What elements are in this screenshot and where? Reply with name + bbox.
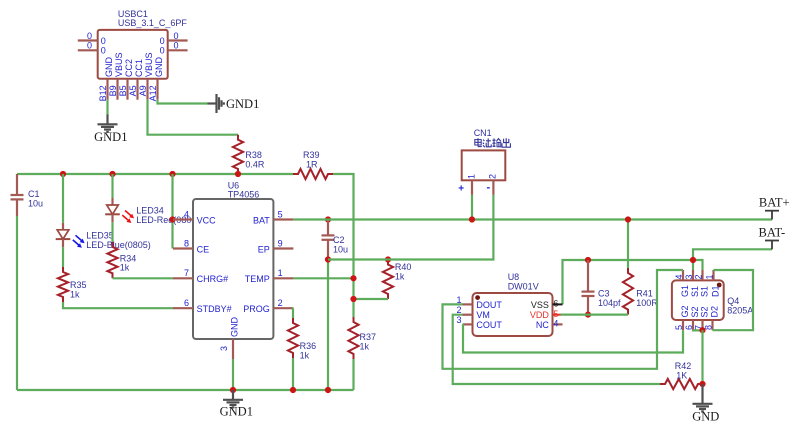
pin 4 VCC of U6	[173, 209, 216, 225]
wire Q4 pin3 drop	[692, 260, 694, 270]
transistor Q4 8205A dual MOSFET	[672, 280, 753, 320]
pin 1 TEMP of U6	[245, 268, 294, 284]
svg-text:1k: 1k	[120, 263, 130, 273]
wire R37 to bottom rail	[352, 359, 354, 390]
svg-text:GND1: GND1	[94, 130, 127, 144]
node rail-LED35	[60, 171, 66, 177]
svg-text:1R: 1R	[306, 159, 318, 169]
pin 6 STDBY# of U6	[173, 298, 232, 314]
svg-text:1k: 1k	[300, 350, 310, 360]
svg-text:2: 2	[278, 298, 283, 308]
svg-text:B9: B9	[108, 85, 118, 96]
resistor R41 100R	[623, 268, 658, 315]
node C3 bottom - VDD line	[585, 312, 591, 318]
resistor R40 1k	[383, 260, 412, 300]
pin 0 bottom-left of USBC1	[78, 41, 106, 56]
svg-text:TEMP: TEMP	[245, 274, 270, 284]
pin 0 bottom-right of USBC1	[160, 41, 188, 56]
wire BAT+ to R41	[627, 220, 629, 269]
svg-text:0: 0	[87, 31, 92, 41]
svg-text:1k: 1k	[360, 341, 370, 351]
wire CN1 pin1 to BAT+	[471, 195, 473, 220]
svg-text:104pf: 104pf	[598, 298, 621, 308]
pin 8 CE of U6	[173, 238, 209, 254]
wire VSS rail right	[563, 260, 703, 304]
node R40 bottom junction	[350, 296, 356, 302]
pin 6 S2 of Q4	[684, 306, 700, 330]
svg-text:S1: S1	[690, 286, 700, 297]
capacitor C1 10u	[11, 174, 44, 216]
svg-text:STDBY#: STDBY#	[197, 304, 232, 314]
svg-text:-: -	[487, 182, 491, 194]
svg-text:EP: EP	[258, 244, 270, 254]
svg-text:B12: B12	[98, 85, 108, 101]
wire C2 to bottom rail	[327, 260, 329, 391]
capacitor C2 10u	[322, 220, 349, 260]
pin 5 BAT of U6	[253, 209, 293, 225]
pin 3 S1 of Q4	[684, 270, 700, 297]
pin 3 GND of U6	[219, 317, 240, 360]
svg-text:5: 5	[553, 309, 558, 319]
svg-text:10u: 10u	[28, 198, 43, 208]
svg-text:S2: S2	[700, 306, 710, 317]
pin 2 S1 of Q4	[693, 270, 709, 297]
pin 1 of CN1	[458, 174, 476, 195]
resistor R34 1k	[107, 242, 136, 278]
svg-text:A12: A12	[148, 85, 158, 101]
wire BAT- net	[693, 249, 772, 260]
LED LED34 LED-Red(0805)	[105, 198, 199, 242]
svg-text:VCC: VCC	[197, 215, 217, 225]
wire C1 to bottom rail	[16, 216, 18, 390]
ground GND at Q4	[692, 384, 719, 424]
node R40 top junction	[385, 256, 391, 262]
svg-text:TP4056: TP4056	[228, 190, 260, 200]
node VSS rail - C3	[585, 257, 591, 263]
op-amp U8 DW01V protection IC	[473, 272, 553, 336]
wire BAT+ net	[293, 218, 772, 220]
svg-text:5: 5	[674, 325, 684, 330]
svg-text:BAT: BAT	[253, 215, 270, 225]
node GND rail - C2	[325, 387, 331, 393]
svg-text:GND: GND	[230, 317, 240, 338]
svg-text:0: 0	[101, 46, 106, 56]
node CN1 pin1 junction	[469, 216, 475, 222]
wire rail to LED34	[111, 174, 113, 198]
svg-text:8: 8	[184, 238, 189, 248]
wire R36 to bottom rail	[292, 358, 294, 390]
svg-text:0.4R: 0.4R	[245, 159, 265, 169]
svg-text:0: 0	[160, 36, 165, 46]
node VCC pin junction	[169, 216, 175, 222]
pin 8 D2 of Q4	[703, 306, 719, 330]
svg-text:NC: NC	[536, 320, 549, 330]
svg-text:CC1: CC1	[134, 59, 144, 77]
wire rail to VCC and CE	[171, 174, 173, 249]
pin 5 G2 of Q4	[674, 305, 690, 330]
pin 2 of CN1	[487, 174, 498, 195]
pin A9 VBUS of USBC1	[138, 52, 154, 99]
wire rail to LED35	[62, 174, 64, 223]
svg-text:6: 6	[184, 298, 189, 308]
svg-text:S2: S2	[690, 306, 700, 317]
svg-text:BAT+: BAT+	[759, 196, 790, 210]
pin 2 VM of U8	[456, 305, 489, 320]
svg-text:U8: U8	[508, 272, 520, 282]
svg-text:CC2: CC2	[124, 59, 134, 77]
svg-text:3: 3	[456, 315, 461, 325]
pin 3 COUT of U8	[456, 315, 502, 330]
resistor R36 1k	[288, 318, 316, 360]
pin 0 top-left of USBC1	[78, 31, 106, 46]
svg-text:1: 1	[704, 274, 714, 279]
LED LED35 LED-Blue(0805)	[56, 223, 151, 267]
svg-text:3: 3	[219, 346, 229, 351]
connector CN1 battery output	[462, 128, 506, 180]
node R42 - S2 junction	[699, 381, 705, 387]
svg-text:1: 1	[466, 174, 476, 179]
svg-text:2: 2	[488, 174, 498, 179]
wire R34 to CHRG#	[113, 277, 174, 279]
wire BAT to C2	[325, 216, 331, 222]
wire TEMP to column	[293, 277, 353, 279]
svg-text:BAT-: BAT-	[759, 226, 786, 240]
svg-text:5: 5	[278, 209, 283, 219]
wire S2 pins join	[693, 329, 703, 331]
wire U6 GND pin to rail	[232, 359, 234, 390]
pin 7 S2 of Q4	[693, 306, 709, 330]
svg-text:DW01V: DW01V	[508, 282, 539, 292]
svg-text:0: 0	[174, 41, 179, 51]
svg-text:VBUS: VBUS	[114, 52, 124, 77]
pin A12 GND of USBC1	[148, 57, 164, 102]
svg-text:4: 4	[553, 319, 558, 329]
svg-text:COUT: COUT	[476, 320, 502, 330]
pin B5 CC2 of USBC1	[118, 59, 134, 100]
wire DOUT to G1	[443, 270, 684, 369]
svg-text:0: 0	[101, 36, 106, 46]
svg-text:GND1: GND1	[226, 97, 259, 111]
resistor R37 1k	[348, 317, 376, 359]
node rail-R38	[235, 171, 241, 177]
pin 1 DOUT of U8	[456, 295, 502, 310]
svg-text:D2: D2	[710, 306, 720, 318]
pin 7 CHRG# of U6	[173, 268, 228, 284]
ground GND1 below USBC1	[94, 115, 127, 145]
pin 6 VSS of U8	[531, 299, 563, 310]
svg-text:4: 4	[674, 274, 684, 279]
svg-text:D1: D1	[711, 285, 721, 297]
wire R35 to STDBY#	[63, 302, 173, 308]
ground GND1 right of USBC1	[208, 94, 260, 113]
node rail-LED34	[109, 171, 115, 177]
svg-text:6: 6	[553, 299, 558, 309]
node GND rail - R36	[290, 387, 296, 393]
wire GND rail	[17, 389, 354, 391]
wire B12 to GND1	[106, 100, 108, 115]
svg-text:1K: 1K	[676, 370, 687, 380]
wire COUT to G2	[463, 324, 684, 352]
pin 9 EP of U6	[258, 238, 294, 254]
svg-text:VDD: VDD	[530, 310, 550, 320]
svg-text:1k: 1k	[395, 271, 405, 281]
wire D1 to D2 loop	[713, 270, 754, 330]
pin B9 VBUS of USBC1	[108, 52, 124, 99]
svg-text:GND: GND	[104, 56, 114, 77]
svg-text:GND1: GND1	[220, 405, 253, 419]
svg-text:A5: A5	[128, 85, 138, 96]
node BAT+ - R41	[625, 216, 631, 222]
terminal BAT-	[759, 226, 786, 250]
wire VCC rail	[17, 173, 293, 175]
pin A5 CC1 of USBC1	[128, 59, 144, 100]
svg-text:PROG: PROG	[243, 304, 270, 314]
svg-text:S1: S1	[700, 286, 710, 297]
svg-text:100R: 100R	[636, 298, 658, 308]
svg-text:VBUS: VBUS	[144, 52, 154, 77]
svg-text:CHRG#: CHRG#	[197, 274, 229, 284]
svg-text:+: +	[458, 184, 464, 195]
svg-text:1: 1	[278, 268, 283, 278]
pin 4 NC of U8	[536, 319, 563, 331]
svg-text:GND: GND	[692, 410, 719, 424]
svg-text:1k: 1k	[70, 289, 80, 299]
wire R39 to right column	[333, 174, 354, 317]
pin 0 top-right of USBC1	[160, 31, 188, 46]
ground GND1 main	[220, 390, 253, 419]
svg-text:6: 6	[684, 325, 694, 330]
svg-text:0: 0	[160, 46, 165, 56]
resistor R39 1R	[293, 150, 333, 179]
svg-text:10u: 10u	[333, 244, 348, 254]
wire A12 to GND1 flag	[158, 100, 208, 104]
node C2 bottom junction	[325, 256, 331, 262]
capacitor C3 104pf	[582, 260, 622, 315]
wire VDD line	[561, 314, 629, 316]
wire R40 bottom to column	[354, 298, 389, 300]
resistor R38 0.4R	[233, 135, 265, 174]
connector USBC1 USB_3.1_C_6PF	[98, 9, 188, 79]
pin 2 PROG of U6	[243, 298, 293, 314]
svg-text:9: 9	[278, 238, 283, 248]
svg-text:0: 0	[87, 41, 92, 51]
svg-text:7: 7	[184, 268, 189, 278]
svg-text:G1: G1	[680, 285, 690, 297]
svg-text:VSS: VSS	[531, 300, 549, 310]
svg-text:4: 4	[184, 209, 189, 219]
svg-text:A9: A9	[138, 85, 148, 96]
label CN1 Chinese value	[475, 138, 511, 147]
pin 5 VDD of U8	[530, 309, 561, 320]
node GND rail - U6	[230, 387, 236, 393]
wire C2 to CN1 pin2	[328, 195, 493, 260]
pin 4 G1 of Q4	[674, 270, 690, 297]
svg-text:0: 0	[174, 31, 179, 41]
svg-text:2: 2	[693, 274, 703, 279]
wire A9 VBUS to R38	[148, 100, 239, 135]
svg-text:CE: CE	[197, 244, 210, 254]
svg-text:CN1: CN1	[474, 128, 492, 138]
node S2 junction	[699, 327, 705, 333]
node VSS rail - Q4/BAT-	[690, 257, 696, 263]
svg-text:8205A: 8205A	[727, 305, 753, 315]
svg-text:USB_3.1_C_6PF: USB_3.1_C_6PF	[118, 18, 188, 28]
wire VM to R42	[453, 315, 660, 384]
resistor R42 1K	[660, 361, 703, 389]
node rail-VCC column	[169, 171, 175, 177]
svg-text:VM: VM	[476, 310, 490, 320]
pin 1 D1 of Q4	[704, 270, 720, 297]
pin B12 GND of USBC1	[98, 56, 114, 101]
svg-text:3: 3	[684, 274, 694, 279]
svg-text:GND: GND	[154, 57, 164, 78]
wire PROG to R36	[292, 308, 295, 318]
wire S2 to R42/GND	[701, 330, 703, 384]
resistor R35 1k	[58, 267, 87, 302]
svg-text:LED35: LED35	[86, 230, 114, 240]
svg-text:B5: B5	[118, 85, 128, 96]
svg-text:LED34: LED34	[136, 206, 164, 216]
svg-text:G2: G2	[680, 305, 690, 317]
node TEMP junction	[350, 275, 356, 281]
svg-text:DOUT: DOUT	[476, 300, 502, 310]
terminal BAT+	[759, 196, 790, 220]
op-amp U6 TP4056 charger IC	[193, 180, 273, 339]
